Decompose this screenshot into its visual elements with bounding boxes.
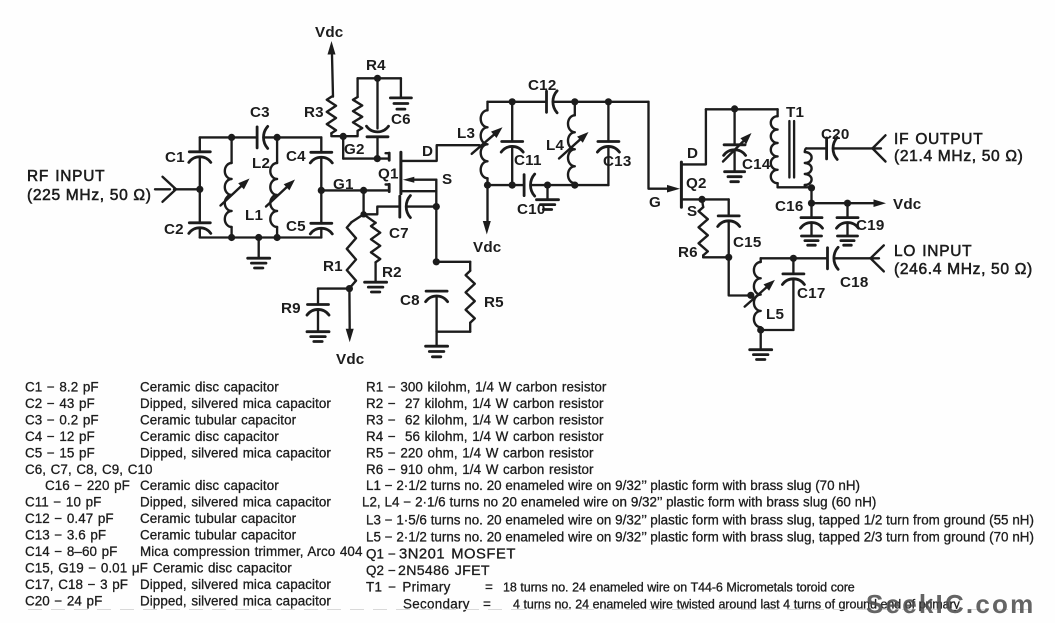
wire input to tank: [174, 188, 200, 190]
wire filter bottom rail: [488, 184, 524, 186]
wire source vertical: [435, 180, 437, 262]
svg-text:L1: L1: [245, 207, 263, 224]
LO input connector: [871, 257, 880, 259]
svg-text:C6, C7, C8, C9, C10: C6, C7, C8, C9, C10: [25, 462, 153, 477]
wire LO top: [761, 257, 827, 259]
wire G1 bias drop: [362, 190, 364, 214]
wire left rail top segment: [199, 137, 201, 152]
wire G2 to Q1 gate2: [343, 157, 387, 159]
svg-text:C16 − 220 pF: C16 − 220 pF: [45, 478, 130, 493]
svg-text:C2: C2: [164, 221, 184, 238]
svg-text:L3: L3: [457, 125, 475, 142]
wire tank bottom rail: [200, 236, 321, 238]
svg-text:C4: C4: [286, 148, 306, 165]
ground C14: [725, 170, 745, 173]
svg-text:3N201 MOSFET: 3N201 MOSFET: [399, 547, 516, 563]
wire output top rail: [706, 108, 778, 110]
IF output connector: [873, 147, 882, 149]
svg-text:Secondary: Secondary: [403, 596, 470, 611]
svg-text:L2, L4 − 2·1/6 turns no 20 ena: L2, L4 − 2·1/6 turns no 20 enameled wire…: [362, 495, 876, 510]
wire to L5 tap: [729, 257, 751, 295]
svg-text:R9: R9: [281, 300, 301, 317]
svg-text:C15, G19 − 0.01 μF: C15, G19 − 0.01 μF: [25, 561, 148, 576]
svg-text:C5: C5: [286, 218, 306, 235]
capacitor C3: [256, 127, 259, 148]
Vdc arrow (right): [874, 199, 887, 207]
wire to R9: [318, 287, 349, 289]
wire G1 to Q1 gate1: [321, 189, 387, 191]
ground tank: [258, 238, 260, 258]
svg-text:Vdc: Vdc: [336, 351, 364, 368]
svg-text:(225 MHz, 50 Ω): (225 MHz, 50 Ω): [27, 187, 152, 204]
svg-text:C3 − 0.2 pF: C3 − 0.2 pF: [25, 412, 99, 427]
svg-text:S: S: [687, 203, 697, 220]
wire to LO connector: [836, 257, 871, 259]
inductor L2: [230, 137, 232, 163]
svg-text:R5: R5: [484, 294, 504, 311]
svg-text:Vdc: Vdc: [893, 196, 921, 213]
svg-text:C12 − 0.47 pF: C12 − 0.47 pF: [25, 511, 114, 526]
svg-text:SeekIC.com: SeekIC.com: [866, 589, 1035, 619]
svg-text:Q1: Q1: [378, 166, 399, 183]
wire to ground (R4 return): [400, 78, 402, 96]
ground near C6: [390, 97, 411, 100]
svg-text:L2: L2: [252, 155, 270, 172]
svg-text:C12: C12: [528, 77, 556, 94]
svg-text:S: S: [442, 171, 452, 188]
wire tank top rail: [200, 136, 256, 138]
RF input connector: [155, 188, 170, 190]
svg-text:(21.4 MHz, 50 Ω): (21.4 MHz, 50 Ω): [894, 148, 1024, 165]
inductor L1: [276, 137, 278, 163]
svg-text:T1: T1: [786, 104, 804, 121]
T1 core: [788, 121, 790, 178]
ground R9: [307, 330, 329, 333]
wire left rail mid segment: [199, 157, 201, 223]
svg-text:L4: L4: [546, 137, 564, 154]
ground C8/R5: [435, 332, 437, 345]
svg-text:Dipped, silvered mica capacito: Dipped, silvered mica capacitor: [140, 577, 331, 592]
svg-text:Ceramic disc capacitor: Ceramic disc capacitor: [140, 380, 279, 395]
svg-text:Vdc: Vdc: [473, 239, 501, 256]
svg-text:R2: R2: [382, 264, 402, 281]
svg-text:Dipped, silvered mica capacito: Dipped, silvered mica capacitor: [140, 593, 331, 608]
svg-text:Q2 −: Q2 −: [366, 563, 396, 578]
capacitor C1: [189, 150, 210, 153]
svg-text:Ceramic tubular capacitor: Ceramic tubular capacitor: [140, 412, 297, 427]
svg-text:C5 − 15 pF: C5 − 15 pF: [25, 445, 95, 460]
svg-text:R2 − 27 kilohm, 1/4 W carbon: R2 − 27 kilohm, 1/4 W carbon resistor: [366, 396, 604, 411]
svg-text:C6: C6: [391, 111, 411, 128]
svg-text:L5 − 2·1/2 turns no. 20 enamel: L5 − 2·1/2 turns no. 20 enameled wire on…: [366, 530, 1034, 545]
wire filter top rail: [488, 101, 546, 103]
faint scan line: [28, 609, 1040, 611]
svg-text:Ceramic disc capacitor: Ceramic disc capacitor: [153, 561, 292, 576]
wire right rail mid segment: [320, 158, 322, 224]
svg-text:=: =: [485, 579, 493, 594]
transformer T1 secondary: [805, 152, 812, 185]
capacitor C5: [311, 222, 332, 225]
svg-text:Dipped, silvered mica capacito: Dipped, silvered mica capacitor: [140, 396, 331, 411]
wire right rail bottom segment: [320, 229, 322, 238]
Vdc feed arrow (bottom left): [348, 289, 351, 330]
ground L5: [760, 330, 762, 349]
svg-text:Vdc: Vdc: [315, 24, 343, 41]
svg-text:C11: C11: [514, 152, 542, 169]
resistor R3: [327, 97, 336, 134]
Q1 gate2 bar: [388, 153, 391, 160]
svg-text:L3 − 1·5/6 turns no. 20 enamel: L3 − 1·5/6 turns no. 20 enameled wire on…: [366, 513, 1034, 528]
svg-text:Dipped, silvered mica capacito: Dipped, silvered mica capacitor: [140, 495, 331, 510]
svg-text:T1 − Primary: T1 − Primary: [366, 579, 451, 594]
svg-text:G2: G2: [344, 141, 365, 158]
svg-text:R1 − 300 kilohm, 1/4 W carbon: R1 − 300 kilohm, 1/4 W carbon resistor: [366, 380, 607, 395]
resistor R1: [351, 214, 363, 222]
svg-text:Mica compression trimmer, Arco: Mica compression trimmer, Arco 404: [140, 544, 363, 559]
wire right rail top segment: [320, 137, 322, 152]
svg-text:C8: C8: [400, 292, 420, 309]
svg-text:D: D: [422, 143, 433, 160]
resistor R2: [364, 214, 376, 223]
svg-text:RF INPUT: RF INPUT: [27, 168, 105, 185]
wire secondary to C20: [806, 147, 826, 149]
svg-text:D: D: [687, 145, 698, 162]
svg-text:C4 − 12 pF: C4 − 12 pF: [25, 429, 95, 444]
wire left rail bottom segment: [199, 228, 201, 238]
ground R2: [365, 281, 387, 284]
Vdc feed arrow (middle): [486, 185, 488, 222]
ground C19: [838, 235, 858, 238]
svg-text:(246.4 MHz, 50 Ω): (246.4 MHz, 50 Ω): [894, 261, 1033, 278]
Q2 channel: [680, 162, 683, 207]
svg-text:Ceramic disc capacitor: Ceramic disc capacitor: [140, 429, 279, 444]
svg-text:C20 − 24 pF: C20 − 24 pF: [25, 593, 102, 608]
svg-text:LO INPUT: LO INPUT: [894, 243, 972, 260]
svg-text:Ceramic disc capacitor: Ceramic disc capacitor: [140, 478, 279, 493]
svg-text:R1: R1: [323, 258, 343, 275]
capacitor R9: [308, 303, 329, 306]
wire to IF output: [835, 147, 873, 149]
wire T1 bottom: [778, 186, 812, 188]
svg-text:R3 − 62 kilohm, 1/4 W carbon: R3 − 62 kilohm, 1/4 W carbon resistor: [366, 412, 604, 427]
capacitor C6: [376, 78, 378, 128]
svg-text:C17: C17: [797, 285, 825, 302]
svg-text:R5 − 220 ohm, 1/4 W carbon res: R5 − 220 ohm, 1/4 W carbon resistor: [366, 445, 594, 460]
svg-text:C18: C18: [840, 274, 868, 291]
svg-text:C3: C3: [250, 104, 270, 121]
svg-text:C14: C14: [742, 156, 771, 173]
svg-text:2N5486 JFET: 2N5486 JFET: [398, 563, 490, 579]
svg-text:C19: C19: [856, 217, 884, 234]
svg-text:R6 − 910 ohm, 1/4 W carbon res: R6 − 910 ohm, 1/4 W carbon resistor: [366, 462, 594, 477]
svg-text:Dipped, silvered mica capacito: Dipped, silvered mica capacitor: [140, 445, 331, 460]
svg-text:C2 − 43 pF: C2 − 43 pF: [25, 396, 95, 411]
svg-text:IF OUTPUT: IF OUTPUT: [894, 131, 983, 148]
svg-text:L1 − 2·1/2 turns no. 20 enamel: L1 − 2·1/2 turns no. 20 enameled wire on…: [366, 478, 860, 493]
svg-text:C11 − 10 pF: C11 − 10 pF: [25, 495, 101, 510]
svg-text:R3: R3: [304, 104, 324, 121]
wire Vdc feed line: [810, 188, 812, 203]
svg-text:C15: C15: [733, 234, 762, 251]
capacitor C2: [189, 221, 210, 224]
svg-text:C1 − 8.2 pF: C1 − 8.2 pF: [25, 380, 99, 395]
svg-text:C14 − 8–60 pF: C14 − 8–60 pF: [25, 544, 117, 559]
svg-text:L5: L5: [766, 306, 784, 323]
svg-text:C13 − 3.6 pF: C13 − 3.6 pF: [25, 528, 106, 543]
svg-text:R4 − 56 kilohm, 1/4 W carbon: R4 − 56 kilohm, 1/4 W carbon resistor: [366, 429, 604, 444]
svg-text:G: G: [649, 194, 661, 211]
svg-text:C17, C18 − 3 pF: C17, C18 − 3 pF: [25, 577, 128, 592]
wire L5 bottom: [761, 329, 794, 331]
ground filter: [546, 185, 548, 198]
svg-text:18 turns no. 24 enameled wire: 18 turns no. 24 enameled wire on T44-6 M…: [503, 580, 855, 594]
wire filter to Q2 gate: [649, 102, 668, 189]
svg-text:Ceramic tubular capacitor: Ceramic tubular capacitor: [140, 511, 297, 526]
wire R4 top rail: [358, 77, 401, 79]
wire bias to G2 line: [342, 136, 344, 158]
svg-text:Q1 −: Q1 −: [366, 547, 396, 562]
svg-text:C1: C1: [165, 149, 185, 166]
svg-text:R4: R4: [366, 57, 386, 74]
svg-text:C7: C7: [389, 225, 409, 242]
ground C16: [802, 235, 822, 238]
svg-text:C16: C16: [775, 198, 803, 215]
Q1 channel: [399, 152, 402, 194]
capacitor C4: [311, 151, 332, 154]
svg-text:Q2: Q2: [686, 175, 707, 192]
Q1 gate1 bar: [388, 184, 391, 191]
svg-text:Ceramic tubular capacitor: Ceramic tubular capacitor: [140, 528, 297, 543]
svg-text:R6: R6: [678, 244, 698, 261]
Q1 bulk lead: [402, 190, 436, 192]
